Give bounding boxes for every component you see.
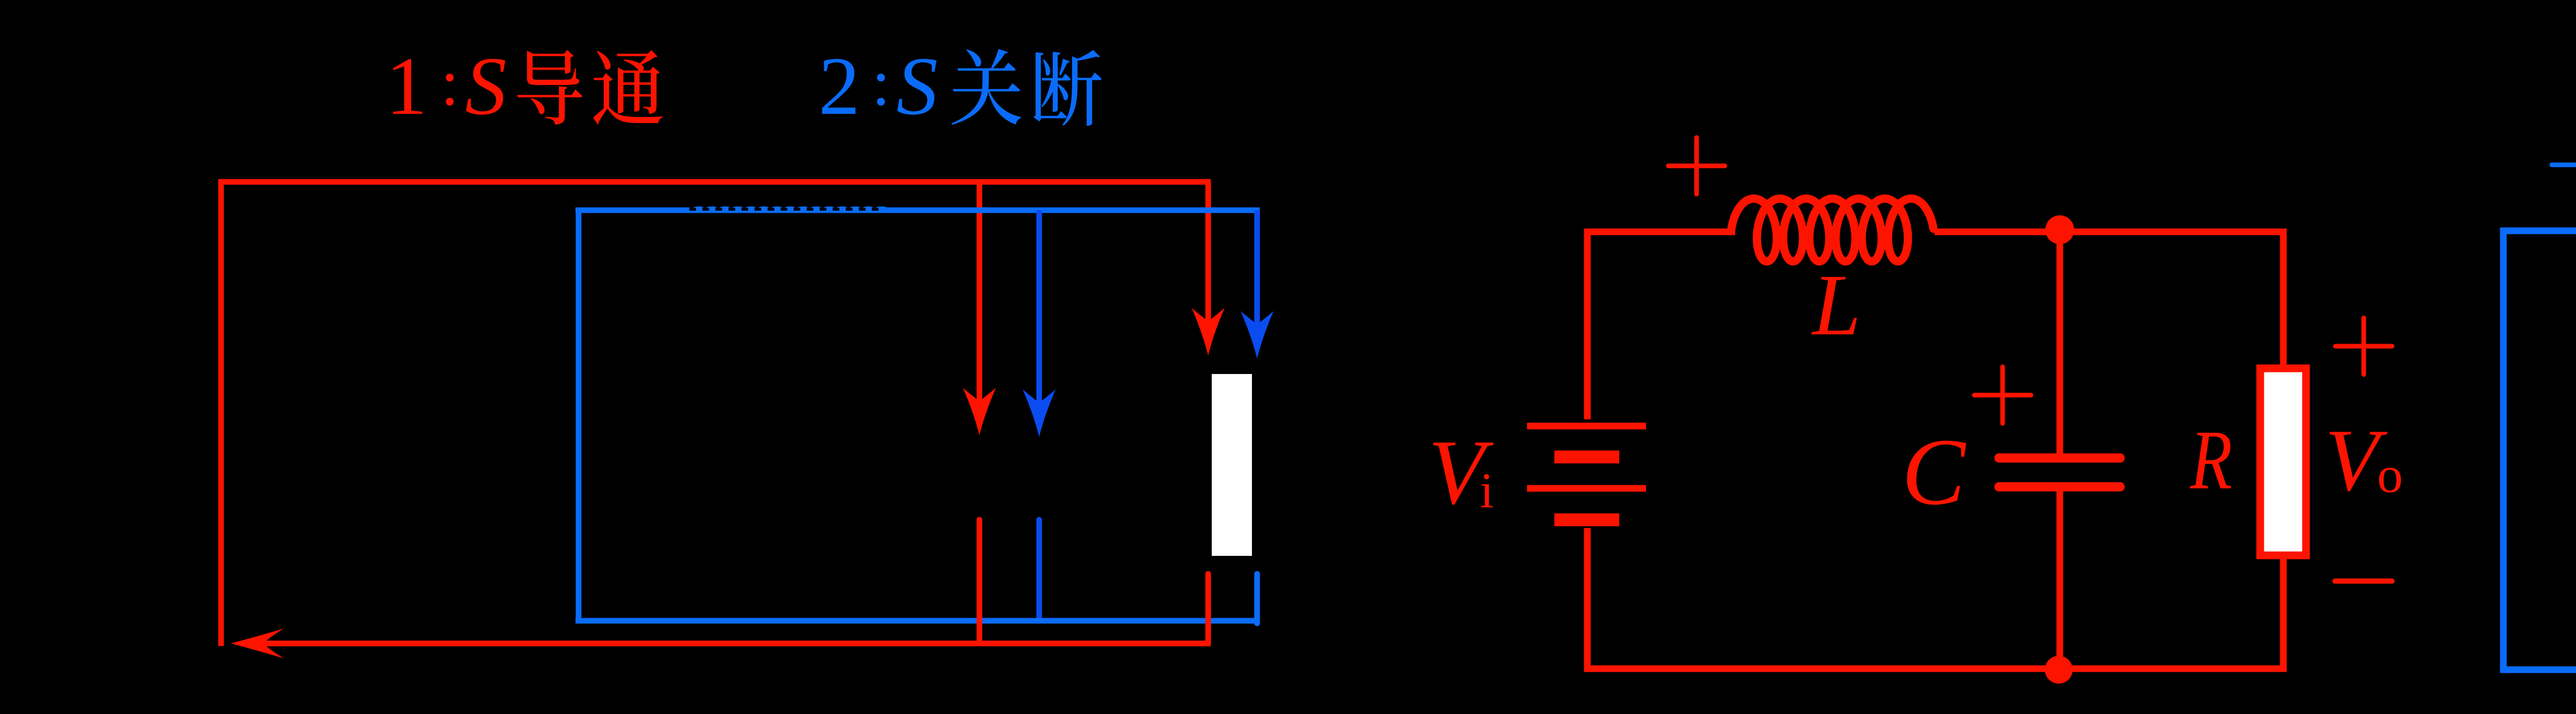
svg-text:o: o <box>2377 446 2403 503</box>
svg-text:L: L <box>1811 257 1861 353</box>
svg-text:S: S <box>465 40 507 132</box>
svg-text:1: 1 <box>386 40 428 132</box>
svg-text::: : <box>440 46 459 119</box>
svg-text:2: 2 <box>819 40 860 132</box>
svg-text::: : <box>872 46 890 119</box>
svg-text:C: C <box>1902 419 1967 525</box>
svg-text:S: S <box>896 40 938 132</box>
svg-text:i: i <box>1480 463 1494 518</box>
svg-text:R: R <box>2190 413 2232 507</box>
